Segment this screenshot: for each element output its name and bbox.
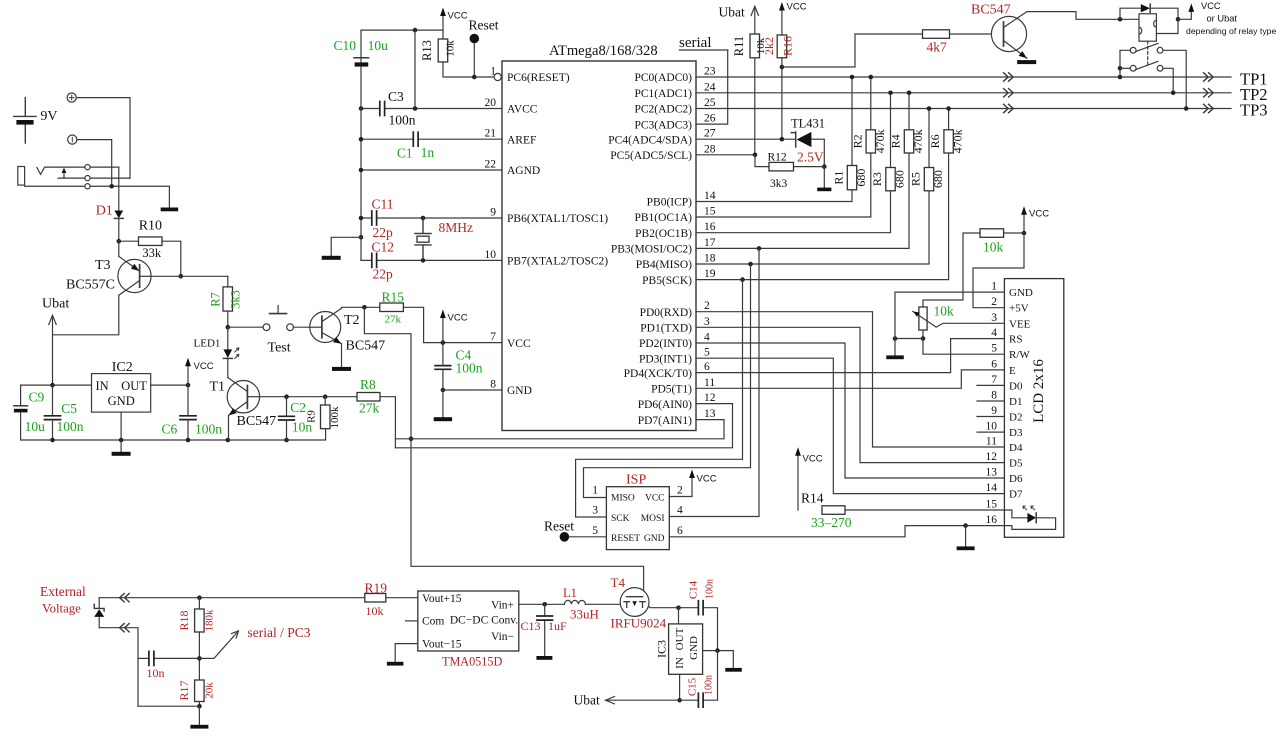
- svg-text:ATmega8/168/328: ATmega8/168/328: [549, 43, 658, 59]
- svg-text:R9: R9: [306, 410, 318, 423]
- svg-text:BC547: BC547: [346, 339, 386, 354]
- wire T3 emitter up: [118, 241, 120, 256]
- svg-text:680: 680: [931, 170, 945, 188]
- capacitor C9 (electrolytic): [14, 406, 28, 413]
- svg-text:VCC: VCC: [645, 493, 665, 503]
- svg-text:OUT: OUT: [121, 379, 147, 393]
- junction rail/T1 emitter: [226, 438, 231, 443]
- wire T1 base to R8: [260, 396, 357, 398]
- wire R2 top: [870, 77, 872, 130]
- wire VCC node to LCD +5V: [973, 233, 1024, 308]
- wire to 4k7: [782, 34, 923, 67]
- wire Vin+ to L1: [519, 603, 565, 605]
- wire 10k left to pot top: [923, 233, 980, 307]
- svg-text:13: 13: [704, 408, 716, 420]
- wire rail AIN1 (PD7): [395, 420, 724, 439]
- node C13: [542, 602, 547, 607]
- node R4/analog line: [907, 91, 912, 96]
- node collector/AIN1 branch: [362, 305, 367, 310]
- svg-text:PB2(OC1B): PB2(OC1B): [635, 228, 692, 240]
- resistor 10k (LED pullup): [980, 229, 1004, 238]
- node R7/LED1/Test: [226, 325, 231, 330]
- node VCC pin7: [441, 340, 446, 345]
- Ubat arrow (open): [49, 315, 56, 335]
- jack tip contact V spring: [37, 168, 45, 175]
- capacitor C4: [435, 343, 451, 390]
- transistor T2 BC547: [310, 308, 342, 343]
- relay contact 2: [1130, 61, 1163, 71]
- svg-text:VCC: VCC: [787, 2, 807, 13]
- svg-text:15: 15: [986, 499, 998, 511]
- ground (main left): [112, 452, 131, 456]
- wire GND pin8: [443, 389, 502, 391]
- wire R16 down to PC4: [781, 58, 783, 139]
- capacitor C10 (electrolytic): [354, 58, 369, 67]
- wire contact1 right to TP3: [1163, 50, 1186, 108]
- svg-text:C14: C14: [688, 580, 700, 599]
- node PB3/MOSI riser: [757, 246, 762, 251]
- svg-text:12: 12: [704, 392, 716, 404]
- svg-text:16: 16: [704, 221, 716, 233]
- node R10/T3 base: [179, 274, 184, 279]
- svg-text:18: 18: [704, 253, 716, 265]
- wire contacts left to TP1: [1120, 50, 1130, 77]
- wire T2 collector net to AIN1 rail and T4 gate: [364, 307, 643, 596]
- svg-text:8: 8: [490, 379, 496, 391]
- svg-text:GND: GND: [1009, 287, 1033, 299]
- wire PC2 / TP3 line: [696, 108, 1231, 110]
- svg-text:BC557C: BC557C: [66, 278, 115, 293]
- svg-text:9: 9: [991, 405, 997, 417]
- node R1/analog line: [850, 75, 855, 80]
- svg-text:BC547: BC547: [237, 414, 277, 429]
- svg-text:6: 6: [991, 358, 997, 370]
- svg-text:2.5V: 2.5V: [797, 150, 824, 165]
- junction rail/C6: [186, 438, 191, 443]
- svg-text:33uH: 33uH: [570, 607, 599, 622]
- battery clip minus terminal: [68, 135, 77, 144]
- jack contact circle 2: [85, 176, 90, 181]
- svg-text:R5: R5: [909, 172, 923, 186]
- ground (LCD): [886, 339, 904, 360]
- wire T2 collector to R15: [342, 307, 380, 308]
- svg-text:D4: D4: [1009, 442, 1023, 454]
- svg-text:T2: T2: [344, 313, 360, 328]
- svg-text:R17: R17: [177, 680, 191, 700]
- svg-text:PC6(RESET): PC6(RESET): [507, 72, 570, 84]
- wire IC3 IN down: [679, 674, 681, 700]
- node trunk/ground branch: [359, 235, 364, 240]
- svg-text:4k7: 4k7: [927, 40, 948, 55]
- wire R17 bottom: [198, 702, 200, 707]
- wire PC3 to serial: [696, 50, 728, 124]
- svg-text:PC0(ADC0): PC0(ADC0): [634, 72, 692, 84]
- Ubat open arrow (bottom): [606, 697, 615, 704]
- svg-text:MISO: MISO: [611, 493, 635, 503]
- wire PD6 wrap down: [696, 403, 733, 405]
- VCC arrow (R13 top): [440, 8, 468, 40]
- junction rail/C2: [284, 438, 289, 443]
- wire divider bottom to probe return: [138, 705, 199, 707]
- svg-text:MOSI: MOSI: [641, 514, 665, 524]
- wire rail AIN0 (PD6): [395, 404, 732, 448]
- svg-text:LCD 2x16: LCD 2x16: [1031, 359, 1047, 423]
- chevron marks (left): [1004, 89, 1014, 97]
- svg-text:2: 2: [704, 300, 710, 312]
- svg-text:9: 9: [490, 207, 496, 219]
- svg-text:D0: D0: [1009, 380, 1023, 392]
- svg-text:20: 20: [485, 97, 497, 109]
- node IN/C5: [50, 383, 55, 388]
- svg-text:serial / PC3: serial / PC3: [248, 625, 311, 640]
- svg-text:Reset: Reset: [469, 18, 499, 33]
- capacitor C15: [698, 693, 703, 707]
- svg-text:Vout+15: Vout+15: [422, 593, 462, 605]
- svg-text:T1: T1: [210, 380, 226, 395]
- svg-text:R16: R16: [781, 36, 795, 56]
- svg-text:PD2(INT0): PD2(INT0): [639, 338, 692, 350]
- svg-text:PD3(INT1): PD3(INT1): [639, 353, 692, 365]
- svg-text:GND: GND: [688, 636, 700, 660]
- node GND pin8 / C4: [441, 388, 446, 393]
- chevron (bottom probe wire): [120, 624, 130, 632]
- regulator IC3 body: [669, 624, 703, 674]
- svg-text:PC4(ADC4/SDA): PC4(ADC4/SDA): [608, 134, 692, 146]
- svg-text:6: 6: [704, 361, 710, 373]
- wire R1 top: [851, 77, 853, 166]
- svg-text:T4: T4: [611, 575, 626, 590]
- svg-text:IN: IN: [96, 379, 109, 393]
- wire C3 riser: [414, 30, 416, 108]
- svg-text:C15: C15: [687, 677, 699, 696]
- svg-text:PB5(SCK): PB5(SCK): [642, 275, 692, 287]
- wire R7 to node: [227, 311, 229, 327]
- resistor R5: [924, 168, 933, 191]
- wire PC5 node to R12: [755, 155, 769, 167]
- capacitor C1: [413, 132, 418, 146]
- wire D1 to junction: [118, 218, 120, 241]
- wire C6 bottom: [187, 420, 189, 440]
- svg-text:IN: IN: [674, 657, 686, 669]
- svg-text:or Ubat: or Ubat: [1207, 14, 1238, 24]
- wire PC1 / TP2 line: [696, 92, 1231, 94]
- wire LCD pin16 to ISP gnd: [669, 526, 1004, 537]
- wire jack sleeve to ground: [25, 186, 170, 207]
- svg-text:10: 10: [986, 421, 998, 433]
- svg-text:Vout−15: Vout−15: [422, 639, 462, 651]
- jack contact circle 1: [85, 165, 90, 170]
- svg-text:C13: C13: [521, 619, 541, 633]
- svg-text:680: 680: [854, 169, 868, 187]
- svg-text:PB0(ICP): PB0(ICP): [647, 197, 693, 209]
- svg-text:PD5(T1): PD5(T1): [651, 384, 692, 396]
- svg-text:R1: R1: [832, 171, 846, 185]
- wire PD0 to LCD D4: [696, 312, 1004, 447]
- svg-text:DC−DC Conv.: DC−DC Conv.: [450, 615, 518, 627]
- wire 10k right to VCC node: [1004, 232, 1024, 234]
- node base/C2: [284, 394, 289, 399]
- relay actuation dashed line: [1147, 41, 1149, 66]
- svg-text:PB7(XTAL2/TOSC2): PB7(XTAL2/TOSC2): [507, 256, 608, 268]
- svg-text:OUT: OUT: [674, 627, 686, 650]
- flyback diode: [1120, 4, 1178, 19]
- pushbutton Test: [263, 306, 293, 331]
- svg-text:19: 19: [704, 268, 716, 280]
- svg-text:PD7(AIN1): PD7(AIN1): [638, 415, 692, 427]
- wire R15 to VCC node: [403, 307, 502, 342]
- node crystal top: [421, 216, 426, 221]
- svg-text:3: 3: [592, 505, 598, 517]
- wire R13 to PC6: [443, 62, 494, 77]
- svg-text:2: 2: [991, 296, 997, 308]
- wire XTAL1 (PB6): [361, 217, 502, 219]
- capacitor C5: [45, 416, 61, 420]
- wire Reset to ISP RESET: [569, 536, 606, 538]
- junction rail/IC2 GND: [119, 438, 124, 443]
- wire R12 to node: [794, 166, 825, 168]
- wire LCD pin1 to gnd net: [895, 292, 1004, 338]
- wire C5 bottom: [52, 420, 54, 440]
- capacitor C2: [279, 397, 295, 440]
- svg-text:11: 11: [986, 436, 997, 448]
- wire C6 top: [187, 385, 189, 416]
- resistor R13: [438, 39, 448, 62]
- svg-text:AGND: AGND: [507, 165, 540, 177]
- diode D1: [114, 211, 123, 219]
- svg-text:PD4(XCK/T0): PD4(XCK/T0): [624, 368, 693, 380]
- svg-text:C9: C9: [29, 390, 45, 405]
- svg-text:PD1(TXD): PD1(TXD): [640, 323, 692, 335]
- wire R10 right to base line: [162, 241, 181, 276]
- wire AGND: [361, 169, 502, 171]
- node TP3 junction: [1184, 106, 1189, 111]
- svg-text:VEE: VEE: [1009, 318, 1031, 330]
- ground Vout-15: [387, 662, 404, 666]
- wire C5 top: [52, 385, 54, 416]
- svg-text:GND: GND: [507, 385, 532, 397]
- node R11/PC5: [753, 153, 758, 158]
- svg-text:3k3: 3k3: [229, 290, 243, 309]
- svg-text:C11: C11: [372, 197, 394, 212]
- wire trunk ground branch: [331, 237, 361, 260]
- PC6 inverted pin circle: [494, 73, 501, 80]
- wire PB0 to R1: [696, 190, 852, 202]
- svg-text:2: 2: [677, 485, 683, 497]
- svg-text:+5V: +5V: [1009, 303, 1029, 315]
- wire probe top to R19: [99, 597, 365, 599]
- svg-text:7: 7: [490, 331, 496, 343]
- svg-text:2k2: 2k2: [762, 37, 776, 55]
- svg-text:17: 17: [704, 237, 716, 249]
- svg-text:R7: R7: [209, 292, 223, 307]
- wire PB3 to R4: [696, 153, 909, 248]
- resistor R8: [357, 393, 380, 402]
- svg-text:depending of relay type: depending of relay type: [1186, 26, 1276, 36]
- svg-text:Ubat: Ubat: [719, 5, 745, 20]
- wire Test to T2 base: [294, 326, 310, 328]
- svg-text:100n: 100n: [57, 419, 84, 434]
- reset touch point (ISP): [560, 532, 570, 542]
- svg-text:IC2: IC2: [112, 360, 133, 375]
- svg-text:T3: T3: [95, 258, 111, 273]
- VCC arrow (LCD): [1021, 206, 1049, 233]
- serial underline: [680, 49, 728, 51]
- svg-text:TMA0515D: TMA0515D: [442, 655, 502, 669]
- svg-text:D2: D2: [1009, 412, 1022, 424]
- wire PD3 to LCD D7: [696, 358, 1004, 493]
- ground C4: [434, 390, 452, 421]
- wire C10 to AVCC line: [360, 67, 362, 109]
- node PB5/ISP riser: [740, 277, 745, 282]
- wire PD1 to LCD D5: [696, 327, 1004, 462]
- VCC arrow (relay): [1178, 1, 1221, 19]
- svg-text:24: 24: [704, 81, 716, 93]
- svg-text:C10: C10: [334, 38, 357, 53]
- ground R17: [190, 706, 208, 728]
- svg-text:D1: D1: [1009, 396, 1022, 408]
- svg-text:C12: C12: [372, 240, 395, 255]
- svg-text:PC2(ADC2): PC2(ADC2): [634, 104, 692, 116]
- node AIN1 rail junction: [409, 437, 414, 442]
- capacitor C6: [180, 416, 196, 420]
- wire IC2 GND down: [120, 412, 122, 440]
- svg-text:Ubat: Ubat: [42, 297, 69, 312]
- wire drain node to C14: [679, 608, 718, 651]
- wire R5 top: [928, 109, 930, 168]
- chevron (top probe wire): [120, 594, 130, 602]
- svg-text:22: 22: [485, 159, 497, 171]
- svg-text:D6: D6: [1009, 473, 1023, 485]
- node TP2 junction: [1171, 91, 1176, 96]
- svg-text:6: 6: [677, 525, 683, 537]
- wire L1 to T4: [585, 604, 622, 606]
- wire probe bottom: [99, 628, 138, 707]
- wire PC5: [696, 154, 755, 156]
- svg-text:4: 4: [704, 332, 710, 344]
- node drain/IC3: [676, 605, 681, 610]
- svg-text:100k: 100k: [329, 406, 341, 429]
- wire coil right: [1156, 19, 1178, 33]
- svg-text:5: 5: [704, 347, 710, 359]
- svg-text:R/W: R/W: [1009, 349, 1030, 361]
- wire T3 base line to R7: [151, 275, 228, 277]
- wire PD2 to LCD D6: [696, 343, 1004, 478]
- svg-text:100n: 100n: [705, 579, 716, 599]
- jack contact circle 3: [85, 184, 90, 189]
- svg-text:R3: R3: [870, 172, 884, 186]
- ground T2: [332, 367, 351, 371]
- svg-text:1: 1: [490, 66, 496, 78]
- wire Reset to PC6 line: [473, 43, 475, 77]
- wire IC3 OUT up: [678, 608, 680, 624]
- svg-text:R13: R13: [420, 40, 434, 61]
- svg-text:VCC: VCC: [803, 454, 823, 465]
- node PC4/TL431: [780, 137, 785, 142]
- svg-text:16: 16: [986, 514, 998, 526]
- node PB4/ISP riser: [748, 262, 753, 267]
- svg-text:PC3(ADC3): PC3(ADC3): [634, 119, 692, 131]
- capacitor 10n: [149, 651, 154, 665]
- svg-text:10u: 10u: [25, 419, 45, 434]
- svg-text:D3: D3: [1009, 427, 1023, 439]
- svg-text:D1: D1: [96, 204, 113, 219]
- svg-text:27: 27: [704, 128, 716, 140]
- node AGND trunk: [359, 168, 364, 173]
- capacitor C3: [380, 102, 385, 116]
- svg-text:27k: 27k: [359, 401, 380, 416]
- svg-text:Ubat: Ubat: [574, 693, 600, 708]
- TMA Com stub: [406, 620, 418, 622]
- wire R4 top: [908, 93, 910, 130]
- svg-text:TL431: TL431: [791, 117, 825, 131]
- svg-text:VCC: VCC: [507, 338, 531, 350]
- resistor R3: [886, 168, 895, 191]
- svg-text:C2: C2: [290, 400, 306, 415]
- wire T4 drain: [649, 607, 679, 608]
- wire collector to relay: [1027, 12, 1139, 20]
- svg-text:VCC: VCC: [1029, 209, 1049, 220]
- svg-text:21: 21: [485, 128, 497, 140]
- svg-text:PB3(MOSI/OC2): PB3(MOSI/OC2): [611, 244, 692, 256]
- svg-text:R11: R11: [732, 36, 746, 56]
- svg-text:External: External: [40, 584, 86, 599]
- VCC arrow (R16): [779, 2, 807, 36]
- node gnd sym: [893, 336, 898, 341]
- wire gnd net to R/W: [895, 339, 1004, 355]
- MOSFET T4 IRFU9024: [620, 588, 649, 617]
- capacitor C13: [537, 604, 553, 656]
- wire PB2 to R3: [696, 191, 891, 233]
- LCD module body: [1004, 279, 1063, 538]
- svg-text:E: E: [1009, 365, 1016, 377]
- LED LED1: [223, 327, 238, 358]
- wire contact2 left stub: [1120, 67, 1130, 69]
- svg-text:10k: 10k: [445, 40, 457, 57]
- chevron marks (left): [1004, 104, 1014, 112]
- svg-text:33–270: 33–270: [811, 515, 852, 530]
- svg-text:100n: 100n: [456, 361, 483, 376]
- wire ISP VCC: [669, 476, 692, 497]
- node crystal bottom: [421, 258, 426, 263]
- resistor R14: [822, 506, 845, 515]
- svg-text:VCC: VCC: [697, 474, 717, 485]
- svg-text:R10: R10: [139, 219, 162, 234]
- resistor R17: [195, 680, 205, 702]
- chevron marks (right): [1204, 73, 1214, 81]
- svg-text:9V: 9V: [40, 109, 57, 124]
- junction rail/C5: [50, 438, 55, 443]
- svg-text:C1: C1: [397, 146, 413, 161]
- svg-text:D7: D7: [1009, 489, 1023, 501]
- svg-text:PD0(RXD): PD0(RXD): [640, 307, 693, 319]
- svg-text:100n: 100n: [389, 113, 416, 128]
- svg-text:serial: serial: [679, 35, 711, 51]
- svg-text:Vin+: Vin+: [491, 599, 514, 611]
- capacitor C12: [372, 253, 377, 267]
- wire R14 to LCD pin15: [845, 509, 1004, 511]
- svg-text:180k: 180k: [204, 609, 216, 632]
- resistor R16: [777, 35, 787, 58]
- node contact2 left: [1118, 66, 1123, 71]
- svg-text:12: 12: [986, 451, 998, 463]
- IC U1 ATmega8/168/328 body: [502, 61, 696, 431]
- node pin16 gnd: [963, 523, 968, 528]
- node AVCC/C10: [359, 106, 364, 111]
- svg-text:R12: R12: [768, 152, 787, 164]
- wire 4k7 to BC547 base: [950, 33, 1004, 35]
- resistor R2: [866, 130, 875, 153]
- svg-text:1: 1: [991, 281, 997, 293]
